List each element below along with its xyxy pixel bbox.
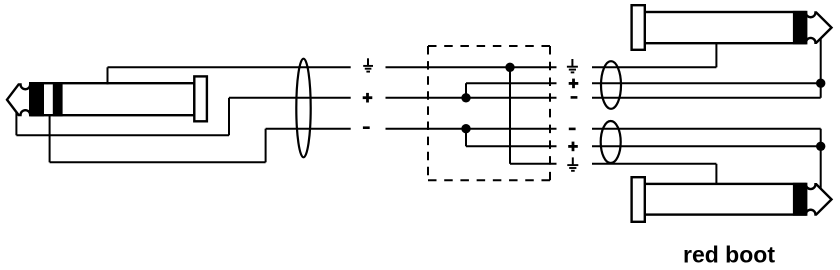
wire ground dropper lower plug bbox=[715, 164, 717, 185]
stereo jack plug J1 ring band bbox=[53, 82, 63, 116]
wire minus to lower node bbox=[592, 128, 821, 130]
wire tip drop from J1 tip bbox=[15, 113, 17, 136]
wire plus through box bbox=[386, 97, 557, 99]
svg-text:red boot: red boot bbox=[683, 242, 775, 268]
mono jack plug J2 collar bbox=[632, 5, 645, 50]
cable ellipse left bbox=[296, 59, 310, 158]
mono jack plug J3 collar bbox=[632, 177, 645, 222]
wire tip lower horizontal bbox=[16, 134, 229, 136]
cable ellipse upper right bbox=[601, 61, 621, 109]
wire ground branch dropper bbox=[509, 67, 511, 164]
minus symbol lower right bbox=[569, 128, 576, 131]
mono jack plug J2 tip bbox=[806, 12, 832, 42]
wire ground riser upper plug bbox=[715, 43, 717, 67]
plus symbol left bbox=[363, 93, 373, 103]
ground symbol upper right bbox=[567, 59, 578, 72]
mono jack plug J2 barrel bbox=[645, 12, 806, 43]
wire ground to lower plug bbox=[592, 163, 716, 165]
wire ring lower horizontal bbox=[50, 161, 266, 163]
wire minus branch horizontal bbox=[466, 145, 557, 147]
minus symbol left bbox=[363, 126, 370, 129]
stereo jack plug J1 barrel bbox=[30, 83, 194, 115]
wire ground top horizontal bbox=[108, 66, 351, 68]
stereo jack plug J1 tip band bbox=[30, 82, 44, 116]
mono jack plug J3 barrel bbox=[645, 184, 806, 215]
wire ring drop from J1 ring bbox=[49, 115, 51, 162]
mono jack plug J2 tip band bbox=[793, 11, 806, 44]
wire ground to upper plug bbox=[592, 66, 716, 68]
wire ground branch horizontal bbox=[510, 163, 557, 165]
node dot lower tip bbox=[816, 142, 825, 151]
stereo jack plug J1 collar bbox=[194, 76, 207, 121]
wire minus through box bbox=[386, 128, 557, 130]
mono jack plug J3 tip band bbox=[793, 183, 806, 216]
wire minus horizontal bbox=[266, 128, 351, 130]
wire plus to upper node bbox=[592, 82, 821, 84]
junction box dashed top edge bbox=[428, 45, 550, 47]
wire plus branch riser bbox=[465, 83, 467, 98]
wire ground through box bbox=[386, 66, 557, 68]
wire ring riser bbox=[265, 129, 267, 163]
minus symbol upper right bbox=[571, 96, 578, 99]
mono jack plug J3 tip bbox=[806, 184, 832, 214]
junction box dashed left edge bbox=[427, 46, 429, 180]
wire plus branch horizontal bbox=[466, 82, 557, 84]
wire tip riser bbox=[228, 98, 230, 136]
node dot minus bbox=[461, 124, 470, 133]
stereo jack plug J1 tip bbox=[7, 84, 30, 115]
junction box dashed bottom edge bbox=[428, 179, 550, 181]
wire plus horizontal bbox=[229, 97, 351, 99]
junction box dashed right edge bbox=[549, 46, 551, 180]
plus symbol lower right bbox=[568, 142, 578, 152]
node dot upper tip bbox=[816, 79, 825, 88]
ground symbol left bbox=[363, 58, 373, 71]
node dot ground bbox=[505, 63, 514, 72]
wire lower tip vertical bbox=[820, 129, 822, 190]
plus symbol upper right bbox=[569, 79, 579, 89]
wire minus to upper node bbox=[592, 97, 821, 99]
ground symbol lower right bbox=[567, 157, 578, 170]
node dot plus bbox=[461, 93, 470, 102]
wire sleeve vertical from J1 barrel bbox=[107, 67, 109, 84]
wire plus to lower node bbox=[592, 145, 821, 147]
wire upper tip vertical bbox=[820, 38, 822, 98]
cable ellipse lower right bbox=[601, 121, 621, 163]
wire minus branch dropper bbox=[465, 129, 467, 147]
